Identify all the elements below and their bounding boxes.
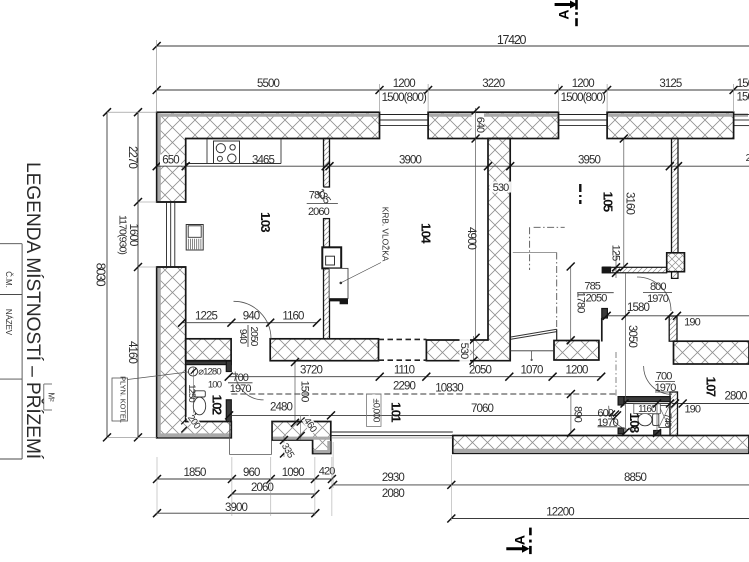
svg-text:2930: 2930 bbox=[382, 472, 404, 484]
svg-text:3720: 3720 bbox=[300, 365, 322, 377]
interior load-bearing wall 530 vertical + south stub bbox=[426, 139, 510, 361]
entrance porch lines bbox=[229, 422, 231, 455]
svg-text:800: 800 bbox=[650, 281, 666, 293]
leader line KRB bbox=[342, 263, 382, 283]
svg-text:1200: 1200 bbox=[566, 365, 588, 377]
toilet room 1.02 bbox=[194, 391, 206, 397]
insulation band top wall bbox=[158, 113, 379, 116]
dashed line hallway 1.01 bbox=[231, 393, 616, 395]
svg-text:3900: 3900 bbox=[225, 502, 247, 514]
insulation band bottom-left wall bbox=[158, 433, 231, 437]
svg-text:3950: 3950 bbox=[578, 155, 600, 167]
level marker +-0,000 bbox=[367, 394, 382, 427]
svg-text:2080: 2080 bbox=[382, 488, 404, 500]
dim 1500 hallway bbox=[294, 362, 296, 423]
svg-text:890: 890 bbox=[572, 406, 584, 422]
gas boiler room 1.02 bbox=[188, 367, 197, 376]
partition wall room 1.02 right jamb upper bbox=[226, 361, 231, 372]
svg-text:2050: 2050 bbox=[586, 293, 608, 305]
svg-text:7060: 7060 bbox=[471, 403, 493, 415]
bottom dim 2060 bbox=[232, 493, 315, 495]
svg-text:2: 2 bbox=[746, 153, 749, 164]
dim 3050 bbox=[625, 273, 627, 432]
svg-text:8850: 8850 bbox=[624, 472, 646, 484]
wall 190 vertical right bbox=[669, 316, 677, 341]
svg-text:640: 640 bbox=[474, 117, 486, 133]
partition wall 135 lower bbox=[324, 219, 330, 339]
dim 740 room 1.08 bbox=[656, 404, 658, 434]
svg-text:1225: 1225 bbox=[195, 311, 217, 323]
wall edge line hall south bbox=[601, 318, 603, 342]
toilet room 1.08 bbox=[653, 414, 659, 426]
svg-text:1070: 1070 bbox=[521, 365, 543, 377]
svg-text:10830: 10830 bbox=[435, 383, 463, 395]
svg-text:2800: 2800 bbox=[725, 391, 747, 403]
partition wall 125 vertical bbox=[672, 139, 679, 253]
svg-text:1090: 1090 bbox=[282, 467, 304, 479]
kitchen sink unit at left wall bbox=[186, 225, 203, 251]
svg-text:1.04: 1.04 bbox=[419, 223, 434, 244]
end cap wall at hall 1.05 bbox=[602, 267, 611, 274]
svg-text:780: 780 bbox=[309, 190, 325, 202]
dim chain interior y166 (650/3465/3900/530/3950) bbox=[157, 165, 749, 167]
svg-text:3160: 3160 bbox=[624, 192, 636, 214]
svg-text:3050: 3050 bbox=[626, 325, 638, 347]
svg-text:A: A bbox=[512, 535, 528, 545]
svg-text:2480: 2480 bbox=[270, 402, 292, 414]
interior wall south of room 1.05 bbox=[554, 341, 599, 361]
dim 125 partition bbox=[615, 252, 617, 278]
partition wall 135 upper bbox=[324, 139, 330, 188]
svg-text:1160: 1160 bbox=[282, 311, 304, 323]
ramp slanted lines in 1.01 bbox=[511, 332, 557, 340]
svg-text:1500(800): 1500(800) bbox=[561, 92, 606, 104]
exterior wall left lower + bottom-left bbox=[157, 267, 232, 438]
window top 2 (1200/1500(800)) bbox=[559, 114, 608, 116]
svg-text:420: 420 bbox=[319, 466, 335, 478]
svg-text:5500: 5500 bbox=[257, 78, 279, 90]
svg-text:1.03: 1.03 bbox=[258, 212, 273, 232]
interior wall between 1.01 and 1.04 west bbox=[270, 339, 378, 361]
svg-text:700: 700 bbox=[656, 371, 672, 383]
svg-text:NÁZEV: NÁZEV bbox=[4, 309, 13, 336]
svg-text:±0,000: ±0,000 bbox=[372, 399, 382, 423]
label 135 partition bbox=[313, 186, 333, 207]
window top 1 (1200/1500(800)) bbox=[380, 114, 429, 116]
bottom dim 2930/2080 bbox=[333, 484, 451, 486]
svg-text:530: 530 bbox=[493, 182, 509, 194]
door label 940/2050 rotated bbox=[237, 325, 259, 347]
interior wall segment above room 1.02 bbox=[186, 339, 231, 361]
dim 200 wall bbox=[181, 419, 187, 425]
exterior porch block + step (460/335) bbox=[272, 422, 331, 454]
label PLYN. KOTEL bbox=[112, 378, 128, 421]
dim 8030 left bbox=[106, 112, 108, 437]
svg-text:⌀1280: ⌀1280 bbox=[198, 367, 221, 378]
svg-text:2050: 2050 bbox=[248, 326, 259, 346]
door arc 700/1970 room 1.07 bbox=[644, 366, 672, 394]
dim chain left (2270/1600/4160) bbox=[137, 112, 139, 437]
svg-text:3125: 3125 bbox=[659, 78, 681, 90]
dim 2480 / 7060 chain bbox=[229, 414, 617, 416]
bottom dim chain 1850/960/1090/420 bbox=[157, 478, 332, 480]
dim 1160 room 1.08 bbox=[625, 403, 671, 405]
bottom dim 12200 bbox=[451, 518, 749, 520]
svg-text:12200: 12200 bbox=[546, 507, 574, 519]
svg-text:4900: 4900 bbox=[465, 227, 477, 249]
svg-text:1580: 1580 bbox=[627, 302, 649, 314]
svg-text:17420: 17420 bbox=[497, 33, 527, 47]
insulation band left wall bbox=[157, 113, 160, 201]
exterior wall top segment 3 bbox=[607, 112, 734, 138]
svg-text:PLYN. KOTEL: PLYN. KOTEL bbox=[119, 376, 128, 423]
legend header M2 bbox=[43, 384, 45, 410]
section line fragment bbox=[579, 184, 581, 204]
exterior wall top segment 2 bbox=[428, 112, 558, 138]
terrace edge lines bbox=[331, 431, 453, 433]
door arc 800/1970 hall 1.05 bbox=[637, 277, 671, 311]
insulation band porch/step bbox=[273, 437, 330, 440]
svg-text:1.07: 1.07 bbox=[704, 377, 719, 397]
partition wall room 1.02 right jamb lower bbox=[226, 400, 231, 422]
dashed lintel lines over 1110 opening bbox=[379, 338, 427, 340]
dim 460 porch wall bbox=[300, 415, 302, 440]
svg-text:1170(930): 1170(930) bbox=[117, 215, 129, 254]
svg-text:650: 650 bbox=[162, 155, 179, 167]
svg-text:LEGENDA MÍSTNOSTÍ – PŘÍZEMÍ: LEGENDA MÍSTNOSTÍ – PŘÍZEMÍ bbox=[22, 162, 45, 460]
svg-text:1970: 1970 bbox=[230, 383, 252, 395]
svg-text:1200: 1200 bbox=[393, 78, 415, 90]
svg-text:740: 740 bbox=[662, 413, 673, 427]
svg-text:2270: 2270 bbox=[126, 146, 138, 168]
shower room 1.08 bbox=[659, 406, 670, 428]
svg-text:2290: 2290 bbox=[393, 381, 415, 393]
chimney block bbox=[667, 253, 685, 272]
dim chain 1225/940/1160 bbox=[182, 322, 317, 324]
svg-text:1500(800): 1500(800) bbox=[382, 92, 427, 104]
partition wall room 1.08 left jamb upper bbox=[618, 397, 624, 405]
svg-text:1500(800): 1500(800) bbox=[737, 92, 749, 104]
window top 3 (clipped at right edge) bbox=[734, 114, 749, 116]
svg-text:3900: 3900 bbox=[399, 155, 421, 167]
svg-text:940: 940 bbox=[243, 311, 260, 323]
partition wall room 1.02 top bbox=[186, 361, 232, 365]
svg-text:KRB. VLOŽKA: KRB. VLOŽKA bbox=[381, 207, 391, 262]
extension lines left bbox=[107, 111, 157, 113]
dim chain top (5500/1200/3220/1200/3125) bbox=[157, 89, 749, 91]
dim chain y376 (3720/1110/2050/1070/1200) bbox=[229, 376, 602, 378]
exterior wall top segment 1 + left upper corner bbox=[157, 112, 380, 202]
svg-text:4160: 4160 bbox=[126, 341, 138, 363]
legend table lines bbox=[21, 244, 23, 459]
door arc 700/1970 room 1.02 bbox=[235, 372, 263, 400]
section marker A top bbox=[555, 3, 572, 6]
svg-text:785: 785 bbox=[584, 281, 600, 293]
dim 2800/190 room 1.07 bbox=[672, 403, 749, 405]
partition wall room 1.08 top bbox=[618, 397, 670, 402]
dim 640 top wall bbox=[472, 113, 485, 137]
svg-text:190: 190 bbox=[684, 317, 700, 329]
svg-text:1.02: 1.02 bbox=[210, 395, 225, 415]
svg-text:940: 940 bbox=[237, 329, 248, 345]
dash-dot loft edge room 1.05 bbox=[556, 253, 558, 328]
dim overall 17420 top bbox=[157, 45, 749, 47]
dim 1580/190 bbox=[607, 315, 749, 317]
interior wall 530 north of room 1.07 bbox=[674, 341, 749, 364]
svg-text:190: 190 bbox=[684, 404, 700, 416]
partition wall 125 horizontal bbox=[602, 267, 667, 273]
stove bbox=[214, 141, 240, 164]
svg-text:1.05: 1.05 bbox=[601, 192, 616, 212]
partition wall room 1.08 left jamb lower bbox=[618, 428, 624, 434]
svg-text:1.08: 1.08 bbox=[627, 413, 642, 433]
dim 890 bbox=[570, 394, 572, 433]
svg-text:100: 100 bbox=[208, 380, 222, 391]
dim 1780 bbox=[570, 267, 572, 341]
bottom dim 3900 bbox=[157, 512, 315, 514]
svg-text:8030: 8030 bbox=[94, 263, 108, 287]
svg-text:960: 960 bbox=[243, 467, 260, 479]
wall 190 left of room 1.07 bbox=[670, 392, 678, 436]
chimney stub bbox=[672, 272, 679, 279]
svg-text:A: A bbox=[556, 9, 572, 19]
door jamb stub hall 1.05 bbox=[602, 309, 608, 319]
svg-text:1.01: 1.01 bbox=[389, 402, 404, 422]
window left wall (1170(930)/1600) bbox=[166, 202, 168, 267]
dim 3160 room 1.05 bbox=[623, 139, 625, 268]
svg-text:1850: 1850 bbox=[184, 467, 206, 479]
door arc 940/2050 kitchen bbox=[234, 301, 272, 339]
svg-text:2060: 2060 bbox=[251, 482, 273, 494]
svg-text:3220: 3220 bbox=[482, 78, 504, 90]
svg-text:1970: 1970 bbox=[647, 293, 669, 305]
svg-text:150: 150 bbox=[737, 78, 749, 90]
extension lines bottom bbox=[156, 457, 158, 516]
extension lines top bbox=[156, 40, 158, 112]
dim 530 interior wall vertical bbox=[472, 336, 474, 365]
door threshold 1070 opening bbox=[510, 350, 554, 352]
svg-text:125: 125 bbox=[610, 245, 622, 261]
exterior wall bottom-right (garage/south) bbox=[453, 436, 749, 454]
svg-text:1110: 1110 bbox=[394, 365, 415, 377]
svg-text:M²: M² bbox=[47, 392, 56, 402]
insulation band bottom-right wall bbox=[454, 449, 748, 453]
svg-text:1250: 1250 bbox=[186, 384, 197, 402]
label 530 wall bbox=[490, 182, 512, 193]
partition wall room 1.08 bottom stub bbox=[654, 431, 661, 436]
svg-text:1970: 1970 bbox=[597, 417, 619, 429]
svg-text:1500: 1500 bbox=[299, 381, 311, 403]
svg-text:Č.M.: Č.M. bbox=[4, 271, 13, 288]
dim 4900 room 1.04 bbox=[475, 139, 477, 338]
svg-text:1200: 1200 bbox=[572, 78, 594, 90]
kitchen counter bbox=[186, 163, 281, 165]
svg-text:3465: 3465 bbox=[252, 155, 274, 167]
svg-text:2060: 2060 bbox=[308, 206, 330, 218]
section marker A bottom bbox=[506, 547, 523, 550]
dim 335 step bbox=[283, 436, 285, 457]
dash-dot line near 1.08 bbox=[615, 352, 617, 397]
fireplace KRB. VLOZKA bbox=[322, 247, 341, 268]
bottom dim 8850 bbox=[451, 484, 749, 486]
door arc 600/1970 room 1.08 bbox=[609, 406, 633, 430]
svg-text:2050: 2050 bbox=[469, 365, 491, 377]
svg-text:530: 530 bbox=[458, 343, 470, 359]
